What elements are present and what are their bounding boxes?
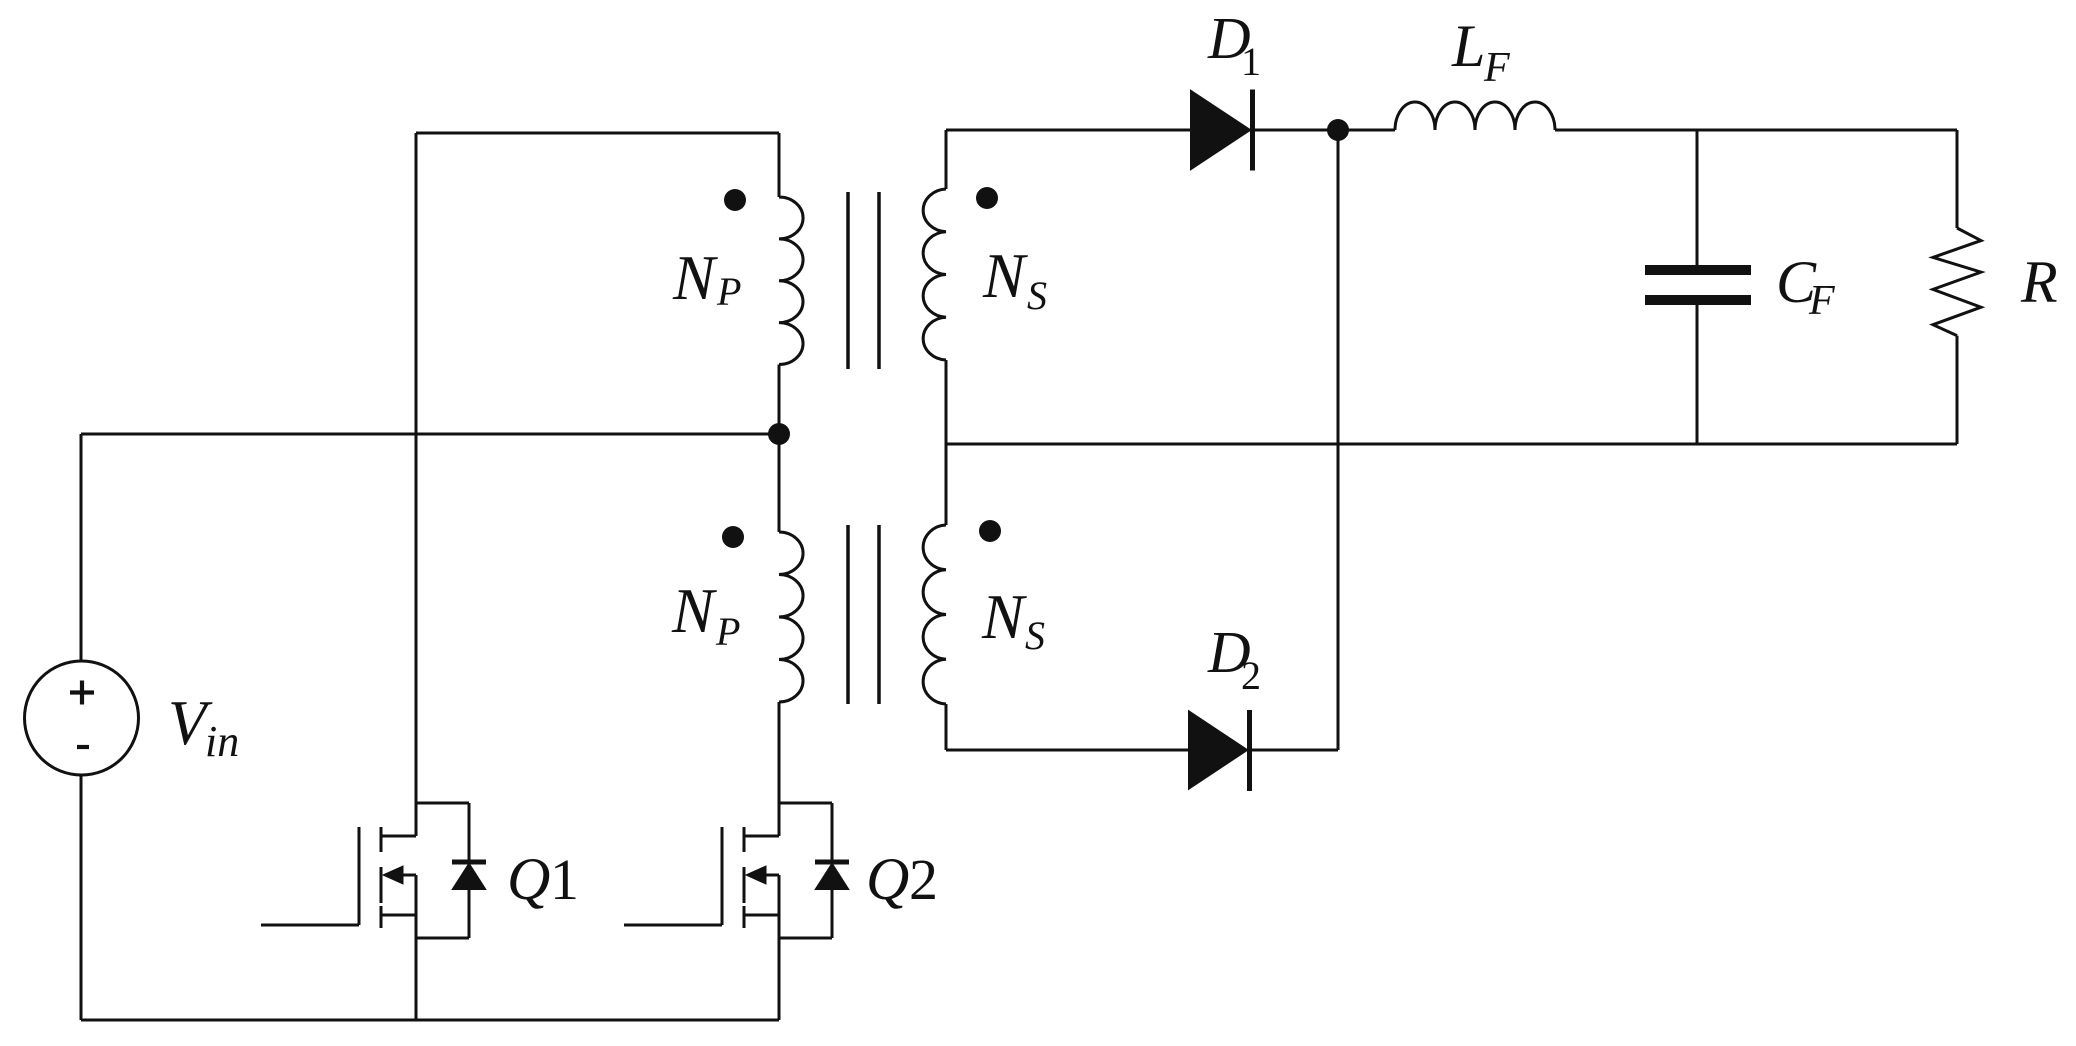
Q2 channel segments — [743, 827, 746, 928]
diode D1 — [1191, 90, 1253, 171]
transistor Q2 — [624, 803, 849, 938]
svg-text:Q: Q — [507, 846, 550, 912]
label Vin — [168, 688, 239, 766]
Q2 source lead — [744, 914, 779, 917]
svg-text:P: P — [716, 269, 741, 314]
D2 cathode bar — [1247, 710, 1252, 791]
svg-text:1: 1 — [1241, 39, 1261, 84]
node primary center tap — [768, 423, 790, 445]
svg-text:F: F — [1483, 45, 1510, 91]
Q2 gate bar — [721, 827, 724, 925]
Vin plus sign — [70, 681, 94, 705]
D2 anode triangle — [1189, 712, 1247, 789]
Q2 body diode cathode bar — [815, 860, 849, 865]
winding NP lower — [779, 532, 803, 702]
wire CF top lead — [1696, 130, 1699, 265]
wire secondary middle lead — [945, 360, 948, 525]
label NP upper — [672, 243, 741, 314]
Q2 body diode triangle — [816, 864, 848, 889]
Q1 body arrowhead — [383, 866, 403, 884]
Vin minus sign — [77, 745, 89, 749]
capacitor CF bottom plate — [1645, 295, 1751, 305]
wire primary middle lead — [778, 365, 781, 533]
wire secondary top lead — [945, 130, 948, 189]
label NS upper — [982, 241, 1047, 318]
svg-text:N: N — [981, 582, 1027, 652]
wire left top (Vin to middle rail) — [80, 434, 83, 661]
Q1 gate lead wire — [261, 924, 359, 927]
svg-text:L: L — [1451, 13, 1485, 79]
winding NP upper — [779, 197, 803, 365]
wire Q1 source vertical — [415, 875, 418, 1020]
Q2 body arrow line — [760, 874, 779, 877]
Q2 drain lead — [744, 835, 779, 838]
Q2 body arrowhead — [746, 866, 766, 884]
label D1 — [1207, 5, 1261, 84]
wire CF bottom lead — [1696, 305, 1699, 444]
Q1 channel segments — [380, 827, 383, 928]
label Q1 — [507, 846, 579, 912]
svg-text:F: F — [1808, 278, 1835, 324]
svg-text:P: P — [715, 609, 740, 654]
svg-text:N: N — [671, 576, 717, 646]
label NP lower — [671, 576, 740, 654]
transformer core upper — [848, 192, 879, 369]
Q1 gate bar — [358, 827, 361, 925]
D1 anode triangle — [1191, 91, 1250, 169]
wire R top lead — [1956, 130, 1959, 228]
transformer core lower — [848, 525, 879, 704]
svg-text:S: S — [1027, 273, 1047, 318]
phase dot NS upper — [976, 187, 998, 209]
svg-text:2: 2 — [1241, 653, 1261, 698]
wire primary top rail — [416, 132, 779, 135]
svg-text:1: 1 — [550, 847, 579, 912]
svg-text:N: N — [982, 241, 1028, 311]
resistor R zigzag — [1933, 228, 1981, 336]
wire secondary bottom to D2 — [946, 749, 1189, 752]
wire secondary top rail to D1 — [946, 129, 1191, 132]
Q1 drain lead — [381, 835, 416, 838]
phase dot NP upper — [724, 189, 746, 211]
wire left bottom (Vin to bottom rail) — [80, 775, 83, 1020]
svg-text:S: S — [1025, 613, 1045, 658]
transistor Q1 — [261, 803, 486, 938]
label D2 — [1207, 619, 1261, 698]
Q1 source lead — [381, 914, 416, 917]
wire middle rail left (to primary center tap) — [81, 433, 779, 436]
wire D1 cathode to LF — [1252, 129, 1395, 132]
wire rectifier node vertical — [1337, 130, 1340, 750]
Q2 body diode wiring — [779, 803, 832, 938]
Q2 gate lead wire — [624, 924, 722, 927]
voltage source Vin circle — [25, 661, 139, 775]
label Q2 — [866, 846, 938, 912]
wire Q1 drain vertical — [415, 133, 418, 836]
wire Q2 drain lead — [778, 702, 781, 836]
Q1 body arrow line — [397, 874, 416, 877]
phase dot NS lower — [979, 520, 1001, 542]
phase dot NP lower — [722, 526, 744, 548]
node rectifier output — [1327, 119, 1349, 141]
svg-text:Q: Q — [866, 846, 909, 912]
label NS lower — [981, 582, 1045, 658]
Q1 body diode wiring — [416, 803, 469, 938]
capacitor CF top plate — [1645, 265, 1751, 275]
wire Q2 source vertical — [778, 875, 781, 1020]
D1 cathode bar — [1250, 90, 1255, 171]
svg-text:R: R — [2020, 249, 2058, 315]
diode D2 — [1189, 710, 1250, 791]
wire secondary bottom lead — [945, 704, 948, 750]
inductor LF — [1395, 102, 1555, 130]
svg-text:N: N — [672, 243, 718, 313]
wire middle rail right — [946, 443, 1957, 446]
wire LF to right corner — [1555, 129, 1957, 132]
wire R bottom lead — [1956, 336, 1959, 444]
label CF — [1776, 249, 1835, 324]
Q1 body diode cathode bar — [452, 860, 486, 865]
svg-text:2: 2 — [909, 847, 938, 912]
svg-text:in: in — [205, 717, 239, 766]
wire bottom rail — [81, 1019, 779, 1022]
wire primary top lead — [778, 133, 781, 197]
Q1 body diode triangle — [453, 864, 485, 889]
winding NS upper — [923, 189, 946, 360]
winding NS lower — [923, 525, 946, 704]
label LF — [1451, 13, 1510, 91]
wire D2 cathode to node vertical — [1249, 749, 1338, 752]
